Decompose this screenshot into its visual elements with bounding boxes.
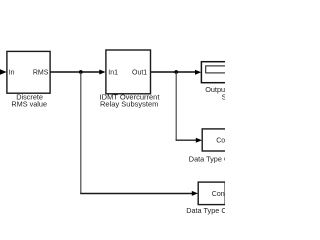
svg-text:Scope: Scope (222, 93, 225, 102)
display inner value box (206, 66, 230, 73)
svg-text:Data Type Conversion: Data Type Conversion (189, 154, 225, 163)
wire branch 2 vertical (175, 73, 177, 141)
svg-text:In1: In1 (108, 69, 118, 76)
svg-text:Convert: Convert (212, 191, 225, 198)
wire RMS out to IDMT In1 (51, 71, 101, 73)
svg-text:Convert: Convert (216, 137, 225, 144)
wire arrowhead into Data Type Conversion (196, 138, 202, 143)
svg-text:RMS: RMS (33, 69, 49, 76)
wire arrowhead into In1 (99, 70, 105, 75)
wire arrowhead into Data Type Conversion1 (192, 191, 198, 196)
wire Out1 to Output Scope display (151, 71, 196, 73)
scope display block Output (201, 62, 228, 83)
block Data Type Conversion1 (Convert) (198, 182, 225, 205)
node junction 2 (174, 70, 178, 74)
svg-text:Relay Subsystem: Relay Subsystem (100, 99, 158, 108)
wire arrowhead into display (195, 70, 201, 75)
wire input into Discrete RMS block (0, 69, 7, 74)
node junction 1 (79, 70, 83, 74)
block Data Type Conversion (Convert) (202, 129, 229, 151)
wire branch 1 horizontal (80, 193, 192, 195)
svg-text:In: In (9, 69, 15, 76)
block Discrete RMS value (7, 51, 50, 93)
wire branch 2 horizontal (176, 139, 197, 141)
svg-text:Out1: Out1 (132, 69, 147, 76)
svg-text:RMS value: RMS value (11, 99, 47, 108)
block IDMT Overcurrent Relay Subsystem (106, 50, 151, 94)
svg-text:Data Type Conversion1: Data Type Conversion1 (186, 206, 225, 215)
wire branch 1 vertical (80, 73, 82, 194)
